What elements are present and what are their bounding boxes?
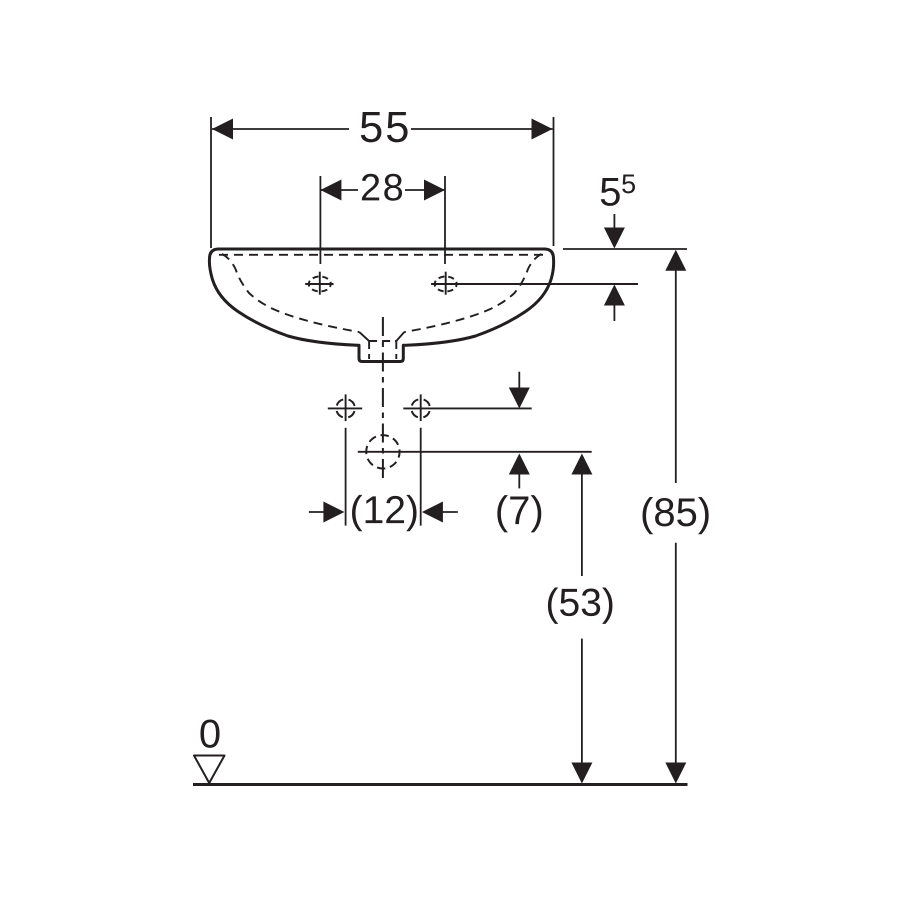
drain duct dashed top [369, 340, 396, 342]
arrowhead up to tap hole line [604, 285, 625, 306]
inner bowl dashed curve right [404, 254, 541, 332]
value text 5 [601, 178, 620, 206]
extension line right (55) [553, 117, 555, 246]
drain hole dashed circle [366, 435, 399, 468]
datum label 0 [200, 720, 219, 748]
datum triangle symbol [194, 756, 225, 784]
vertical centerline (dash-dot) [382, 317, 384, 478]
arrow tail down (5.5 bottom) [613, 303, 615, 321]
left faucet hole [309, 277, 331, 292]
drain duct dashed left wall [368, 341, 370, 359]
drain centre horizontal line [358, 451, 592, 453]
dimension line (28) [320, 189, 358, 191]
extension line right (28) [444, 176, 446, 264]
ground line [193, 783, 688, 786]
arrowhead up to rim line (85) [665, 250, 686, 271]
left mounting hole [336, 399, 355, 418]
drain funnel slant left [359, 332, 369, 341]
value text (7) [497, 495, 541, 532]
drain duct dashed right wall [395, 341, 397, 359]
value text (85) [643, 497, 709, 534]
arrowhead up to drain line (53) [571, 454, 592, 475]
right faucet hole [435, 277, 457, 292]
washbasin outer outline [209, 249, 553, 362]
arrowhead down to rim line [604, 228, 625, 249]
dimension line (55) [212, 128, 349, 130]
drain funnel slant right [396, 332, 404, 341]
arrowhead left (55) [212, 119, 233, 140]
dimension line lower (85) [675, 543, 677, 764]
dimension (85) [643, 250, 709, 784]
value text 28 [362, 174, 402, 201]
superscript text 5 [622, 175, 635, 194]
arrowhead right (28) [424, 180, 445, 201]
arrowhead up to drain line [509, 454, 530, 475]
arrowhead pointing right (12) [323, 502, 344, 523]
arrow tail left (12) [309, 511, 326, 513]
extension line left (55) [210, 117, 212, 248]
arrow tail right (12) [440, 511, 458, 513]
arrow tail top (7) [518, 372, 520, 390]
dimension line upper (85) [675, 268, 677, 483]
arrowhead right (55) [532, 119, 553, 140]
arrow tail down (5.5 top) [613, 214, 615, 230]
inner rim dashed line [219, 254, 545, 256]
arrow tail bottom (7) [518, 472, 520, 488]
dimension (7) [497, 372, 541, 533]
dimension line lower (53) [581, 639, 583, 764]
value text 55 [361, 112, 408, 142]
arrowhead left (28) [320, 180, 341, 201]
right mounting hole [411, 399, 430, 418]
dimension 28 [320, 174, 445, 264]
extension line left (12) [345, 428, 347, 526]
arrowhead down to mounting hole line [509, 388, 530, 409]
arrowhead down to floor (53) [571, 763, 592, 784]
dimension (12) [309, 428, 458, 531]
inner bowl dashed curve left [222, 254, 359, 332]
dimension 55 [211, 112, 554, 248]
extension line left (28) [319, 176, 321, 264]
dimension (53) [548, 454, 613, 784]
arrowhead down to floor (85) [665, 763, 686, 784]
rim level extension line [563, 248, 687, 250]
extension line right (12) [420, 428, 422, 526]
dimension 5 exp 5 [563, 175, 687, 321]
